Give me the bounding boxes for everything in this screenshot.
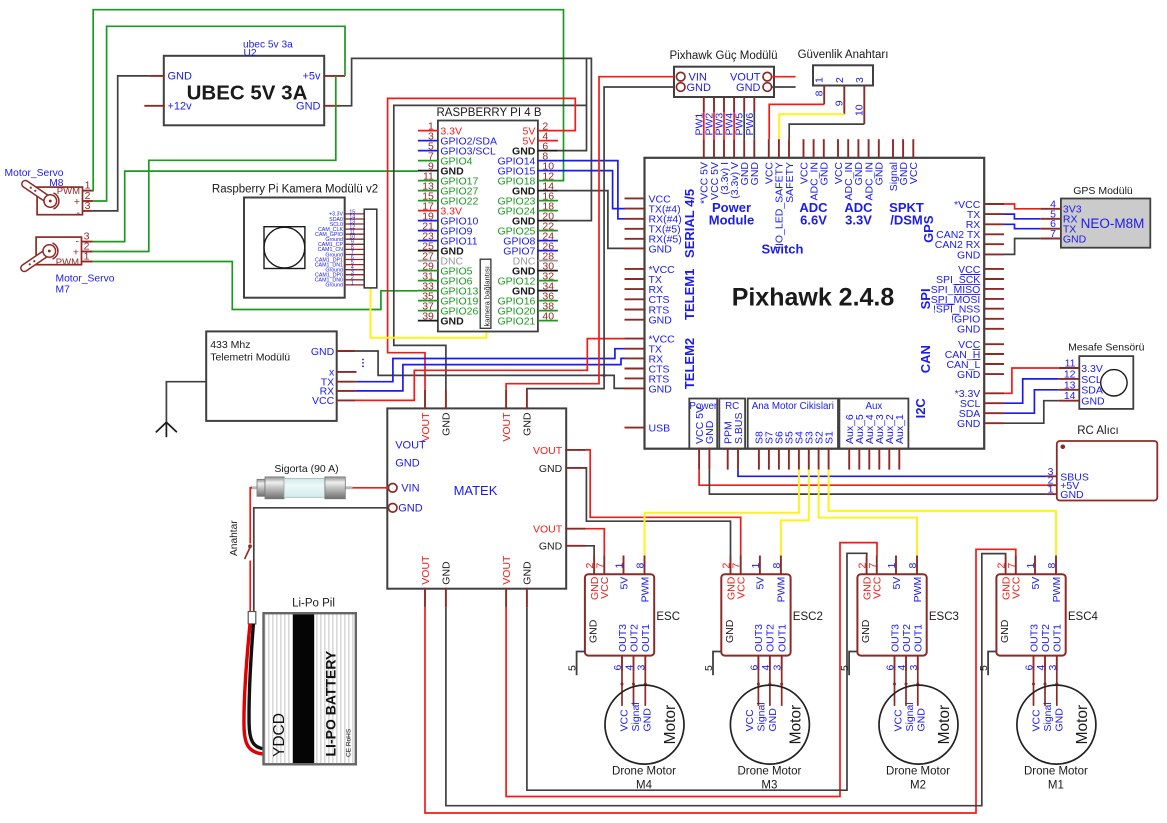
svg-text:VCC: VCC — [619, 709, 631, 732]
RPi pin 19 GPIO10 — [418, 220, 438, 222]
Pixhawk bottom pin S6 — [778, 449, 780, 470]
camera pin 11 CAM_GPIO — [345, 233, 365, 235]
wire Pixhawk *VCC to GPS 3V3 (red) — [1004, 204, 1040, 209]
Pixhawk right pin CAN_L — [984, 363, 1004, 365]
svg-text:3.3V: 3.3V — [845, 213, 872, 228]
ESC2 top pin 1 5V — [759, 556, 761, 575]
svg-text:Pixhawk 2.4.8: Pixhawk 2.4.8 — [732, 284, 895, 312]
Pixhawk left pin VCC — [625, 197, 645, 199]
fuse lead right — [345, 486, 353, 489]
svg-text:OUT2: OUT2 — [765, 624, 777, 652]
svg-text:GND: GND — [957, 324, 981, 336]
RPi pin 40 GPIO21 — [538, 320, 558, 322]
svg-text:PWM: PWM — [56, 257, 79, 268]
ESC3 left pin 5 GND — [849, 652, 857, 676]
ESC ESC4 box — [996, 574, 1065, 655]
Pixhawk top pin VCC — [768, 139, 770, 158]
distance sensor box — [1079, 356, 1133, 409]
ESC bottom pin 6 OUT3 — [621, 656, 623, 672]
Pixhawk right pin *3.3V — [984, 392, 1004, 394]
battery wire black — [249, 624, 263, 749]
svg-text:VOUT: VOUT — [533, 445, 563, 457]
wire Pixhawk GND to GPS GND (gray) — [1004, 239, 1040, 255]
switch symbol Anahtar — [248, 544, 252, 548]
Pixhawk right pin GND — [984, 422, 1004, 424]
svg-text:OUT3: OUT3 — [753, 624, 765, 652]
RPi pin 1 3.3V — [418, 130, 438, 132]
svg-text:40: 40 — [542, 310, 554, 322]
wire UBEC GND left to M8 pin3 (gray) — [93, 76, 150, 211]
svg-text:GND: GND — [957, 418, 981, 430]
power module pin PW2 — [713, 97, 715, 112]
Pixhawk right pin SPI_SCK — [984, 278, 1004, 280]
Pixhawk bottom pin Aux_5 — [858, 449, 860, 470]
svg-text:OUT2: OUT2 — [901, 624, 913, 652]
svg-text:GND: GND — [687, 82, 712, 94]
Pixhawk left pin TX(#5) — [625, 228, 645, 230]
svg-text:3: 3 — [908, 665, 920, 671]
camera pin 6 CAM1_DP1 — [345, 259, 365, 261]
ESC3 top pin 7 VCC — [876, 556, 878, 575]
power module pin PW5 — [743, 97, 745, 112]
svg-text:1: 1 — [84, 251, 90, 263]
svg-text:Drone Motor: Drone Motor — [1024, 766, 1088, 778]
MATEK top pin VOUT — [505, 390, 507, 409]
Pixhawk bottom pin VCC 5V — [698, 449, 700, 470]
Pixhawk bottom pin Aux_6 — [848, 449, 850, 470]
wire safety switch pin 9 to Pixhawk (yellow) — [779, 114, 844, 139]
svg-text:PWM: PWM — [1051, 577, 1063, 603]
wire Pixhawk S3 to ESC2 PWM (yellow) — [781, 470, 809, 556]
svg-text:Anahtar: Anahtar — [229, 520, 240, 556]
svg-text:GND: GND — [649, 315, 673, 327]
Pixhawk left pin *VCC — [625, 268, 645, 270]
Pixhawk top pin ADC_IN — [813, 139, 815, 158]
svg-text:7: 7 — [731, 563, 743, 569]
motor M4 circle — [605, 685, 684, 764]
svg-text:TELEM2: TELEM2 — [682, 338, 697, 389]
RPi pin 23 GPIO11 — [418, 240, 438, 242]
MATEK pin GND circle — [388, 504, 397, 513]
svg-text:VOUT: VOUT — [533, 524, 563, 536]
Pixhawk right pin SPI_MOSI — [984, 298, 1004, 300]
MATEK right pin VOUT — [565, 528, 585, 530]
Pixhawk bottom section Power box — [689, 399, 717, 449]
wire ESC3 OUT2 to motor M2 (pin lead) — [905, 671, 907, 706]
MATEK power distribution board box — [387, 408, 566, 588]
RPi pin 3 GPIO2/SDA — [418, 140, 438, 142]
Pixhawk top pin GND — [743, 139, 745, 158]
Pixhawk bottom pin GND — [708, 449, 710, 470]
Pixhawk left pin RX — [625, 357, 645, 359]
Pixhawk bottom pin S2 — [818, 449, 820, 470]
RPi pin 32 GPIO12 — [538, 280, 558, 282]
wire MATEK bottom VOUT2 bus to ESC3 VCC (red) — [506, 543, 877, 797]
ESC3 top pin 1 5V — [895, 556, 897, 575]
svg-text:Drone Motor: Drone Motor — [886, 766, 950, 778]
RPi pin 18 GPIO24 — [538, 210, 558, 212]
wire PW3 to Pixhawk top pin (red) — [723, 112, 725, 139]
svg-text:M1: M1 — [1048, 780, 1064, 792]
wire fuse to MATEK VIN (red) — [353, 487, 389, 489]
wire Pixhawk RX to GPS TX (blue) — [1004, 224, 1040, 228]
svg-text:GND: GND — [999, 619, 1011, 643]
ESC4 top pin 1 5V — [1034, 556, 1036, 575]
svg-text:Switch: Switch — [762, 241, 804, 256]
RPi pin 8 GPIO14 — [538, 160, 558, 162]
svg-text:GND: GND — [539, 463, 563, 475]
RPi pin 17 3.3V — [418, 210, 438, 212]
wire camera connector to kamera baglantisi (yellow) — [371, 288, 487, 338]
RPi pin 4 5V — [538, 140, 558, 142]
svg-text:14: 14 — [1064, 390, 1076, 402]
svg-text:1: 1 — [886, 563, 898, 569]
camera lens square — [264, 227, 305, 269]
ESC4 left pin 5 GND — [988, 652, 996, 676]
svg-text:4: 4 — [896, 665, 908, 671]
servo motor M8 — [37, 187, 82, 215]
Pixhawk bottom pin S5 — [788, 449, 790, 470]
svg-text:GND: GND — [587, 619, 599, 643]
Pixhawk left pin RX — [625, 288, 645, 290]
wire ESC OUT2 to motor M4 (pin lead) — [633, 671, 635, 706]
telemetry module 433 Mhz box — [206, 331, 337, 421]
fuse lead left — [250, 486, 259, 489]
svg-text:VOUT: VOUT — [501, 555, 513, 585]
svg-text:OUT2: OUT2 — [1040, 624, 1052, 652]
svg-text:GND: GND — [522, 561, 534, 585]
RPi pin 30 GND — [538, 270, 558, 272]
svg-text:5V: 5V — [618, 577, 630, 590]
camera pin 9 CAM1_CP — [345, 243, 365, 245]
svg-text:VCC: VCC — [1011, 576, 1023, 599]
motor M1 circle — [1017, 685, 1096, 764]
wire ESC4 OUT3 to motor M1 (pin lead) — [1033, 671, 1035, 706]
wire MATEK GND to battery minus (gray) — [254, 508, 389, 612]
ESC3 bottom pin 3 OUT1 — [917, 656, 919, 672]
camera ribbon connector strip — [364, 209, 377, 288]
wire PW1 to Pixhawk top pin (red) — [703, 112, 705, 139]
wire power module GND to MATEK GND top4 (gray) — [527, 87, 674, 390]
RPi pin 16 GPIO23 — [538, 200, 558, 202]
wire UBEC GND right ground net to RPi pin6 pin20 and MATEK GND (gray) — [340, 58, 591, 220]
camera pin 3 CAM1_DP0 — [345, 274, 365, 276]
Pixhawk left pin *VCC — [625, 338, 645, 340]
wire power module GND right dangling (gray) — [772, 86, 796, 88]
wire RPi GPIO14 pin8 to Pixhawk RX#4 (blue) — [558, 161, 625, 219]
wire power module VIN to MATEK VOUT top3 (red) — [506, 77, 674, 390]
Pixhawk top pin GND — [823, 139, 825, 158]
wire RPi 5V pin2 to MATEK VOUT top1 (red) — [388, 98, 576, 390]
svg-text:1: 1 — [614, 563, 626, 569]
svg-text:5V: 5V — [1030, 577, 1042, 590]
svg-text:GND: GND — [395, 457, 420, 469]
RPi pin 11 GPIO17 — [418, 180, 438, 182]
camera pin 5 CAM1_DN1 — [345, 264, 365, 266]
Pixhawk top pin VCC 5V — [713, 139, 715, 158]
svg-text:VCC: VCC — [872, 576, 884, 599]
svg-text:GND: GND — [441, 412, 453, 436]
camera pin 15 +3.3V — [345, 213, 365, 215]
ESC bottom pin 3 OUT1 — [644, 656, 646, 672]
svg-text:GND: GND — [1054, 708, 1066, 732]
svg-text:6.6V: 6.6V — [800, 213, 827, 228]
ESC2 bottom pin 4 OUT2 — [769, 656, 771, 672]
wire Pixhawk SCL to sensor SCL (blue) — [1004, 379, 1059, 403]
svg-text:Module: Module — [709, 213, 755, 228]
distance sensor pin 11 3.3V — [1059, 367, 1080, 369]
distance sensor pin 12 SCL — [1059, 378, 1080, 380]
Pixhawk right pin RX — [984, 223, 1004, 225]
svg-text:Signal: Signal — [756, 702, 768, 731]
svg-text:OUT1: OUT1 — [913, 624, 925, 652]
svg-text:GPIO21: GPIO21 — [497, 316, 535, 328]
svg-text:Li-Po Pil: Li-Po Pil — [292, 597, 335, 609]
ESC4 bottom pin 3 OUT1 — [1056, 656, 1058, 672]
svg-text:1: 1 — [750, 563, 762, 569]
ESC top pin 7 VCC — [603, 556, 605, 575]
svg-text:M3: M3 — [761, 780, 777, 792]
svg-text:Sigorta (90 A): Sigorta (90 A) — [274, 463, 338, 475]
Pixhawk right pin VCC — [984, 268, 1004, 270]
Pixhawk top pin !IO_LED_SAFETY — [778, 139, 780, 158]
RPi pin 6 GND — [538, 150, 558, 152]
Pixhawk right pin !GPIO — [984, 318, 1004, 320]
wire ESC OUT1 to motor M4 (pin lead) — [644, 671, 646, 706]
svg-text:VIN: VIN — [401, 483, 419, 495]
svg-text:OUT2: OUT2 — [628, 624, 640, 652]
svg-text:M7: M7 — [56, 285, 71, 296]
Pixhawk bottom pin S.BUS — [737, 449, 739, 470]
svg-text:433 Mhz: 433 Mhz — [210, 339, 250, 351]
svg-text:OUT1: OUT1 — [640, 624, 652, 652]
motor M3 circle — [730, 685, 809, 764]
Pixhawk left pin CTS — [625, 298, 645, 300]
wire ESC OUT3 to motor M4 (pin lead) — [621, 671, 623, 706]
RPi pin 33 GPIO13 — [418, 290, 438, 292]
svg-text:GND: GND — [704, 420, 716, 444]
svg-text:OUT3: OUT3 — [1028, 624, 1040, 652]
Pixhawk right pin CAN_H — [984, 353, 1004, 355]
Pixhawk left pin GND — [625, 387, 645, 389]
MATEK top pin VOUT — [424, 390, 426, 409]
svg-text:GND: GND — [649, 383, 673, 395]
GPS pin 4 3V3 — [1040, 208, 1061, 210]
Pixhawk left pin GND — [625, 247, 645, 249]
Pixhawk right pin CAN2 TX — [984, 233, 1004, 235]
camera module body box — [244, 198, 345, 298]
Pixhawk top pin (3.3v) V — [733, 139, 735, 158]
svg-text:7: 7 — [867, 563, 879, 569]
RPi pin 27 DNC — [418, 260, 438, 262]
svg-text:/DSM: /DSM — [890, 213, 923, 228]
Pixhawk bottom section RC box — [719, 399, 745, 449]
ESC top pin 8 PWM — [644, 556, 646, 575]
wire RPi pin14 GND to Pixhawk SERIAL GND (gray) — [558, 191, 625, 249]
camera pin 7 Ground — [345, 254, 365, 256]
svg-text:I2C: I2C — [913, 398, 928, 419]
pin M7 3 minus — [82, 241, 93, 243]
svg-text:Telemetri Modülü: Telemetri Modülü — [210, 352, 290, 364]
RC receiver pin 1 GND — [1047, 493, 1057, 495]
power module pin PW3 — [723, 97, 725, 112]
camera pin 4 Ground — [345, 269, 365, 271]
overline marks on SPI CAN labels — [961, 274, 981, 276]
distance sensor pin 14 GND — [1059, 400, 1080, 402]
svg-text:SPI: SPI — [918, 288, 933, 309]
RPi pin 26 GPIO7 — [538, 250, 558, 252]
pin U2 GND left — [150, 75, 165, 77]
Pixhawk right pin TX — [984, 213, 1004, 215]
svg-text:GND: GND — [957, 249, 981, 261]
svg-text:Motor: Motor — [787, 705, 804, 745]
RPi pin 10 GPIO15 — [538, 170, 558, 172]
svg-text:+12v: +12v — [168, 101, 193, 113]
svg-text:3: 3 — [635, 665, 647, 671]
svg-text:5: 5 — [566, 665, 578, 671]
wire ESC3 OUT1 to motor M2 (pin lead) — [917, 671, 919, 706]
svg-text:Motor: Motor — [936, 705, 953, 745]
svg-text:9: 9 — [834, 100, 846, 106]
pin M7 1 PWM — [82, 261, 93, 263]
RPi pin 2 5V — [538, 130, 558, 132]
wire M7 pin3 - to RPi pin9 GND (green) — [93, 171, 418, 242]
wire MATEK VOUT right2 to ESC1 VCC (red) — [586, 529, 605, 556]
wire PW6 to Pixhawk top pin (gray) — [753, 112, 755, 139]
svg-text:VOUT: VOUT — [420, 555, 432, 585]
Pixhawk left pin RX(#5) — [625, 238, 645, 240]
svg-text:Signal: Signal — [904, 702, 916, 731]
battery wire red — [244, 624, 264, 754]
power module pin GND right — [763, 83, 772, 92]
svg-text:ESC4: ESC4 — [1068, 611, 1099, 623]
svg-text:RC: RC — [725, 401, 739, 412]
wire ESC4 OUT2 to motor M1 (pin lead) — [1044, 671, 1046, 706]
Pixhawk pin USB — [625, 427, 645, 429]
svg-text:PWM: PWM — [639, 577, 651, 603]
ESC left pin 5 GND — [577, 652, 585, 676]
Pixhawk bottom pin Aux_1 — [898, 449, 900, 470]
camera pin 8 CAM1_CN — [345, 248, 365, 250]
svg-text:Ground: Ground — [325, 283, 343, 289]
wire M7 pin1 PWM to RPi GPIO13 (green) — [93, 262, 418, 310]
svg-text:GND: GND — [440, 316, 464, 328]
Pixhawk top pin ADC_IN — [868, 139, 870, 158]
ESC3 top pin 8 PWM — [916, 556, 918, 575]
Pixhawk right pin SDA — [984, 412, 1004, 414]
svg-text:GND: GND — [724, 619, 736, 643]
flight controller U3 Pixhawk 2.4.8 box — [645, 158, 985, 449]
svg-text:GND: GND — [1081, 396, 1105, 408]
svg-text:8: 8 — [1046, 563, 1058, 569]
Pixhawk top pin VCC — [803, 139, 805, 158]
MATEK right pin VOUT — [565, 449, 585, 451]
svg-text:VCC: VCC — [1031, 709, 1043, 732]
svg-text:Drone Motor: Drone Motor — [737, 766, 801, 778]
RPi pin 21 GPIO9 — [418, 230, 438, 232]
svg-text:RASPBERRY PI 4 B: RASPBERRY PI 4 B — [436, 107, 541, 119]
wire safety switch pin 10 to Pixhawk (gray) — [789, 124, 864, 139]
svg-text:GND: GND — [860, 619, 872, 643]
wire Pixhawk GND to RC GND (gray) — [709, 470, 1046, 495]
ESC2 top pin 8 PWM — [780, 556, 782, 575]
GPS pin 6 TX — [1040, 228, 1061, 230]
telemetry pin RX — [337, 390, 356, 392]
svg-text:GND: GND — [398, 503, 423, 515]
RPi pin 20 GND — [538, 220, 558, 222]
svg-text:Motor: Motor — [662, 705, 679, 745]
wire safety switch pin 8 to Pixhawk (red) — [769, 104, 824, 139]
svg-text:M2: M2 — [910, 780, 926, 792]
ESC ESC2 box — [721, 574, 790, 655]
power module pin PW1 — [703, 97, 705, 112]
wire ESC3 OUT3 to motor M2 (pin lead) — [894, 671, 896, 706]
RPi pin 36 GPIO16 — [538, 300, 558, 302]
svg-text:Drone Motor: Drone Motor — [612, 766, 676, 778]
power module pin GND left — [676, 83, 685, 92]
pin M8 2 plus — [83, 200, 93, 202]
battery body LI-PO BATTERY — [264, 613, 356, 764]
svg-text:Pixhawk Güç Modülü: Pixhawk Güç Modülü — [669, 50, 777, 62]
svg-text:kamera bağlantısı: kamera bağlantısı — [482, 266, 491, 326]
wire PW4 to Pixhawk top pin (red) — [733, 112, 735, 139]
RPi pin 35 GPIO19 — [418, 300, 438, 302]
wire Pixhawk VCC 5V to RC +5V (red) — [699, 470, 1047, 486]
Raspberry Pi 4 B pin header box — [438, 121, 538, 332]
svg-text:GND: GND — [1060, 489, 1084, 501]
svg-text:Güvenlik Anahtarı: Güvenlik Anahtarı — [798, 49, 889, 61]
MATEK bottom pin VOUT — [505, 588, 507, 608]
svg-text:6: 6 — [612, 665, 624, 671]
svg-text:VCC: VCC — [599, 576, 611, 599]
power module pin VOUT — [763, 72, 772, 81]
wire M8 pin1 PWM to RPi GPIO18 (green) — [93, 10, 564, 191]
RPi pin 15 GPIO22 — [418, 200, 438, 202]
RC receiver box — [1057, 441, 1158, 501]
svg-text:8: 8 — [907, 563, 919, 569]
svg-text:Mesafe Sensörü: Mesafe Sensörü — [1068, 342, 1145, 354]
svg-text:GND: GND — [539, 541, 563, 553]
svg-text:Motor: Motor — [1074, 705, 1091, 745]
svg-text:OUT1: OUT1 — [777, 624, 789, 652]
svg-text:Signal: Signal — [630, 702, 642, 731]
svg-text:VCC: VCC — [312, 395, 335, 407]
RPi pin 28 DNC — [538, 260, 558, 262]
RC receiver pin 3 SBUS — [1047, 475, 1057, 477]
ESC4 top pin 8 PWM — [1055, 556, 1057, 575]
wire Pixhawk S1 to ESC4 PWM (yellow) — [829, 470, 1056, 556]
MATEK bottom pin GND — [445, 588, 447, 608]
Pixhawk bottom pin Aux_3 — [878, 449, 880, 470]
svg-text:Aux: Aux — [865, 401, 882, 412]
wire MATEK bottom GND1 bus to ESC4 GND (gray) — [446, 554, 1006, 806]
Pixhawk top pin ADC_IN — [847, 139, 849, 158]
wire Pixhawk S2 to ESC3 PWM (yellow) — [819, 470, 917, 556]
ESC bottom pin 4 OUT2 — [633, 656, 635, 672]
wire switch to battery connector (red) — [249, 561, 251, 615]
power module pin PW6 — [753, 97, 755, 112]
wire Pixhawk TX to GPS RX (blue) — [1004, 214, 1040, 219]
telemetry pin GND — [337, 350, 356, 352]
pin M7 2 plus — [82, 251, 93, 253]
Pixhawk top pin (3.3v) I — [723, 139, 725, 158]
RPi pin 12 GPIO18 — [538, 180, 558, 182]
Pixhawk bottom pin PPM — [727, 449, 729, 470]
pin M8 1 PWM — [83, 190, 93, 192]
telemetry pin TX — [337, 381, 356, 383]
ESC2 left pin 5 GND — [713, 652, 721, 676]
wire M7 pin2 + to UBEC +5v (green) — [93, 76, 336, 252]
